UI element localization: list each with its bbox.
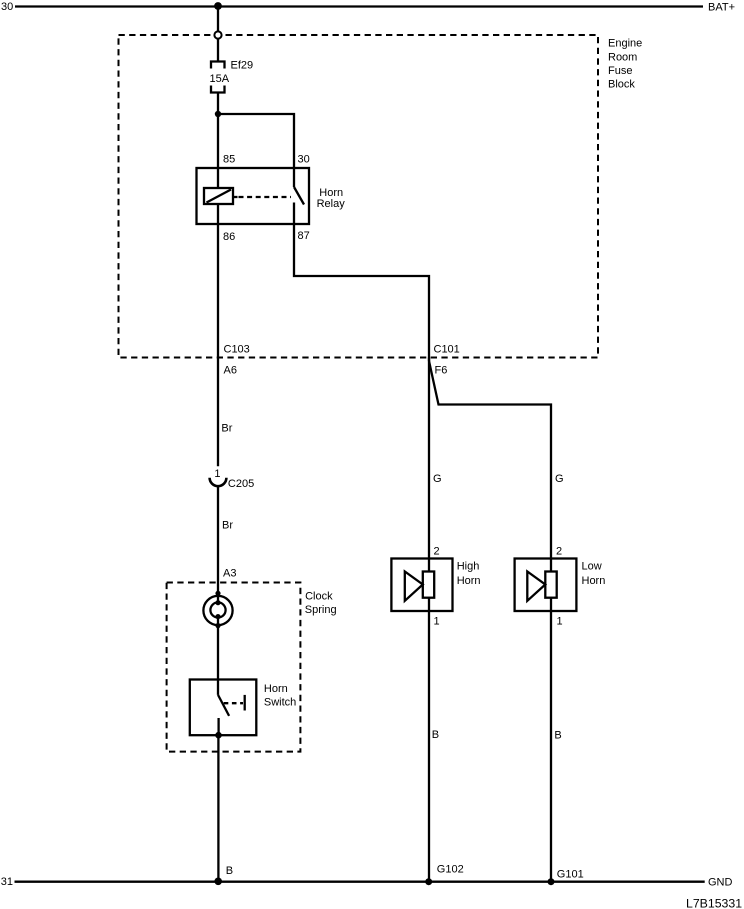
node: ground junction dot G101 <box>548 878 555 885</box>
svg-text:A3: A3 <box>223 567 236 579</box>
wire from fuse to junction <box>217 93 219 189</box>
High Horn speaker symbol <box>405 572 434 601</box>
Clock Spring dashed box <box>167 583 337 752</box>
net 31 GND bus <box>1 876 733 889</box>
dashed actuation link coil to contact <box>239 196 292 198</box>
svg-text:Br: Br <box>222 519 233 531</box>
wire from bus 30 down to fuse Ef29 <box>217 6 219 62</box>
relay contact: pin30 lead and blade <box>294 168 304 205</box>
svg-text:B: B <box>554 729 561 741</box>
svg-text:Spring: Spring <box>305 604 337 616</box>
node: ground junction dot G102 <box>425 878 432 885</box>
fuse Ef29 15A <box>210 59 254 92</box>
Low Horn speaker symbol <box>527 572 556 601</box>
svg-text:1: 1 <box>214 468 220 480</box>
node: junction dot on bus 30 <box>214 2 222 10</box>
svg-text:30: 30 <box>298 154 310 166</box>
horn switch lower stub <box>217 718 219 735</box>
wire branch F6 to Low Horn <box>429 361 551 882</box>
wire F6 down to High Horn and ground <box>428 358 430 882</box>
svg-text:G: G <box>433 473 442 485</box>
relay U: Horn Relay box <box>197 168 346 224</box>
svg-text:G102: G102 <box>437 864 464 876</box>
svg-text:1: 1 <box>434 615 440 627</box>
svg-text:GND: GND <box>708 876 733 888</box>
svg-text:Block: Block <box>608 79 635 91</box>
svg-text:2: 2 <box>434 546 440 558</box>
wire horn switch to ground <box>217 735 219 882</box>
node: dot at horn switch bottom <box>215 732 222 739</box>
wire pin 87 stub and route to C101 <box>294 203 429 362</box>
svg-text:Ef29: Ef29 <box>231 59 254 71</box>
connector C101 pin F6 labels <box>434 344 460 377</box>
svg-text:31: 31 <box>1 876 13 888</box>
wire C205 to clock spring <box>217 486 219 603</box>
svg-text:BAT+: BAT+ <box>708 2 735 14</box>
svg-text:Horn: Horn <box>264 683 288 695</box>
svg-text:Switch: Switch <box>264 697 296 709</box>
svg-text:85: 85 <box>223 154 235 166</box>
svg-text:30: 30 <box>1 1 13 13</box>
svg-text:Clock: Clock <box>305 590 333 602</box>
relay coil <box>204 188 238 204</box>
horn switch push rod dashed <box>224 702 243 704</box>
svg-text:F6: F6 <box>435 365 448 377</box>
horn switch contact blade <box>218 695 229 716</box>
svg-text:Relay: Relay <box>317 198 346 210</box>
svg-text:B: B <box>226 865 233 877</box>
svg-text:Engine: Engine <box>608 37 642 49</box>
clock spring slip-ring symbol <box>203 591 232 629</box>
node: ground junction dot switch <box>214 878 222 886</box>
svg-text:Horn: Horn <box>319 187 343 199</box>
svg-text:Fuse: Fuse <box>608 65 632 77</box>
svg-text:Horn: Horn <box>457 575 481 587</box>
net 30 BAT+ bus <box>1 1 735 14</box>
svg-text:87: 87 <box>298 230 310 242</box>
svg-text:15A: 15A <box>210 73 230 85</box>
svg-text:Br: Br <box>221 422 232 434</box>
Horn Switch box <box>190 680 297 736</box>
High Horn box <box>391 559 480 612</box>
svg-text:L7B15331: L7B15331 <box>686 896 742 909</box>
Low Horn box <box>515 559 606 612</box>
svg-text:Horn: Horn <box>582 575 606 587</box>
connector open circle at fuse block boundary <box>214 31 221 38</box>
wire clock spring to horn switch <box>217 617 219 695</box>
svg-text:1: 1 <box>557 616 563 628</box>
svg-text:High: High <box>457 561 480 573</box>
svg-text:G: G <box>555 473 564 485</box>
node: junction dot below fuse <box>215 111 221 117</box>
connector C205 pin 1 <box>210 468 255 490</box>
Engine Room Fuse Block dashed box <box>119 35 643 358</box>
svg-text:Room: Room <box>608 51 637 63</box>
wire branch from junction to relay pin 30 <box>218 114 294 168</box>
svg-text:B: B <box>432 729 439 741</box>
svg-text:G101: G101 <box>557 868 584 880</box>
svg-text:C103: C103 <box>224 344 250 356</box>
horn switch push bar <box>244 695 246 711</box>
svg-text:Low: Low <box>582 561 602 573</box>
svg-text:2: 2 <box>556 546 562 558</box>
svg-text:86: 86 <box>223 231 235 243</box>
svg-text:A6: A6 <box>224 365 237 377</box>
connector C103 pin A6 labels <box>224 344 250 377</box>
svg-text:C205: C205 <box>228 478 254 490</box>
wire pin 86 down through C103 to C205 <box>217 204 219 466</box>
svg-text:C101: C101 <box>434 344 460 356</box>
